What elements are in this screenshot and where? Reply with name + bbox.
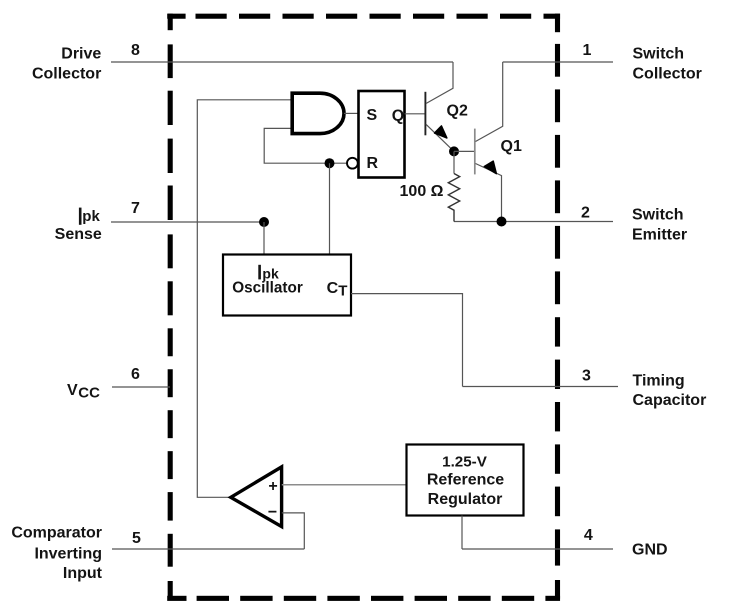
Q1 emitter arrow: [484, 161, 496, 173]
Q1 collector: [476, 62, 503, 142]
svg-text:GND: GND: [632, 542, 668, 559]
wire junction to Q1 base: [454, 150, 475, 152]
Q2 collector: [426, 62, 453, 104]
svg-text:Input: Input: [63, 565, 103, 582]
wire latch Q output to Q2 base: [405, 113, 426, 115]
wire AND output to latch S input: [344, 112, 359, 114]
node: junction dot on Switch Emitter line: [497, 217, 507, 227]
svg-text:5: 5: [132, 530, 141, 547]
pin 3 lead wire (Timing Capacitor): [463, 386, 619, 388]
wire comparator + input to reference regulator: [282, 484, 407, 486]
latch R inverter bubble: [347, 158, 358, 169]
transistor Q1: [475, 62, 503, 222]
svg-text:V: V: [67, 382, 78, 399]
pin 2 lead wire (Switch Emitter): [454, 221, 613, 223]
svg-text:Q1: Q1: [501, 138, 522, 155]
svg-text:7: 7: [131, 200, 140, 217]
wire junction down to resistor: [453, 151, 455, 173]
pin 8 lead wire (Drive Collector): [111, 61, 453, 63]
node: Q2 emitter / Q1 base junction: [449, 146, 459, 156]
svg-text:1.25-V: 1.25-V: [442, 454, 488, 471]
svg-text:C: C: [327, 280, 339, 297]
node: junction dot on Ipk Sense line: [259, 217, 269, 227]
and-gate: [292, 93, 344, 133]
svg-text:Comparator: Comparator: [11, 525, 102, 542]
svg-text:Collector: Collector: [32, 65, 101, 82]
svg-text:Switch: Switch: [633, 46, 685, 63]
pin 6 lead wire (VCC): [112, 386, 170, 388]
svg-text:Regulator: Regulator: [428, 491, 503, 508]
svg-text:S: S: [367, 107, 378, 124]
node: junction dot on R line: [325, 158, 335, 168]
IC boundary dashed box: [167, 14, 560, 601]
svg-text:Emitter: Emitter: [632, 226, 687, 243]
svg-text:Timing: Timing: [633, 372, 685, 389]
Q1 base bar: [474, 129, 476, 175]
svg-text:Inverting: Inverting: [34, 545, 102, 562]
pin 5 lead wire (Comparator Inverting Input): [112, 548, 304, 550]
pin 7 lead wire (Ipk Sense): [111, 221, 264, 223]
Q2 emitter: [426, 124, 454, 151]
svg-text:6: 6: [131, 366, 140, 383]
svg-text:4: 4: [584, 527, 593, 544]
svg-text:Collector: Collector: [633, 65, 702, 82]
svg-text:1: 1: [583, 42, 592, 59]
svg-text:3: 3: [582, 368, 591, 385]
wire R node down to oscillator: [329, 163, 331, 254]
svg-text:100 Ω: 100 Ω: [400, 183, 444, 200]
pin 7 label Ipk Sense: [55, 208, 102, 243]
svg-text:Q: Q: [392, 107, 404, 124]
resistor 100 ohm: [448, 174, 459, 222]
svg-text:Reference: Reference: [427, 472, 504, 489]
pin 1 lead wire (Switch Collector): [503, 61, 613, 63]
wire oscillator CT to pin 3: [351, 294, 463, 387]
svg-text:2: 2: [581, 205, 590, 222]
svg-text:T: T: [338, 282, 347, 299]
svg-text:+: +: [268, 478, 277, 495]
comparator (op-amp): [231, 467, 282, 527]
oscillator label Ipk: [258, 265, 279, 282]
latch U1 box: [359, 91, 405, 178]
transistor Q2: [425, 62, 454, 151]
svg-text:Sense: Sense: [55, 226, 102, 243]
wire Ipk sense node down to oscillator: [263, 222, 265, 255]
Q1 emitter: [476, 164, 502, 222]
reference regulator block: [407, 445, 524, 516]
svg-text:CC: CC: [78, 384, 100, 401]
svg-text:Q2: Q2: [447, 102, 468, 119]
svg-text:Switch: Switch: [632, 207, 684, 224]
svg-text:Oscillator: Oscillator: [232, 280, 303, 297]
svg-text:−: −: [268, 504, 277, 521]
wire comparator - input to pin 5: [282, 513, 305, 549]
wire comparator output to AND input 1: [197, 100, 290, 498]
pin 4 lead wire (GND): [462, 548, 613, 550]
wire R node to AND input 2: [264, 128, 347, 163]
Q2 emitter arrow: [435, 126, 447, 138]
svg-text:R: R: [367, 155, 379, 172]
svg-text:Capacitor: Capacitor: [633, 392, 707, 409]
svg-text:8: 8: [131, 42, 140, 59]
oscillator block: [223, 255, 351, 316]
wire reference regulator to GND pin 4: [461, 516, 463, 550]
svg-text:pk: pk: [82, 208, 100, 225]
svg-text:Drive: Drive: [61, 46, 101, 63]
Q2 base bar: [424, 92, 426, 136]
